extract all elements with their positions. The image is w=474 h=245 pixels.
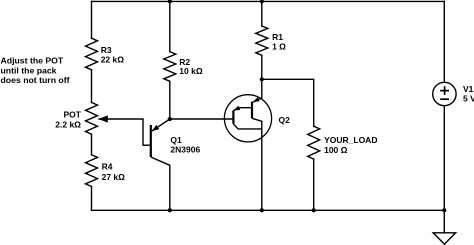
svg-text:2.2 kΩ: 2.2 kΩ	[55, 120, 81, 130]
wire node X to YOUR_LOAD	[262, 79, 314, 126]
node bottom V1	[442, 208, 446, 212]
resistor R1	[256, 26, 268, 55]
svg-text:R3: R3	[101, 45, 112, 55]
wire R3 to POT	[91, 70, 93, 103]
wire POT to R4	[91, 134, 93, 155]
potentiometer POT	[86, 102, 98, 134]
wire V1 top lead	[443, 1, 445, 82]
Q2 arrow T2 emitter	[253, 97, 260, 102]
wire R2 top lead	[169, 1, 171, 51]
resistor YOUR_LOAD	[308, 126, 320, 159]
svg-text:POT: POT	[64, 110, 82, 120]
svg-text:until the pack: until the pack	[1, 65, 57, 75]
transistor Q1 2N3906	[151, 119, 170, 165]
node bottom Q2	[260, 208, 264, 212]
wire left rail lower	[91, 187, 93, 211]
svg-text:1 Ω: 1 Ω	[272, 42, 286, 52]
svg-text:R1: R1	[272, 32, 283, 42]
node bottom load	[312, 208, 316, 212]
wire R1 top lead	[261, 1, 263, 26]
potentiometer wiper arrow	[98, 115, 108, 122]
svg-text:Q2: Q2	[279, 115, 291, 125]
node bottom Q1	[168, 208, 172, 212]
transistor Q2 (PNP darlington)	[224, 95, 271, 142]
node X	[260, 77, 264, 81]
node top R2	[168, 0, 172, 3]
wire node A to Q2 base	[170, 118, 234, 120]
svg-text:22 kΩ: 22 kΩ	[101, 55, 125, 65]
svg-text:R4: R4	[102, 161, 113, 171]
svg-text:YOUR_LOAD: YOUR_LOAD	[324, 135, 377, 145]
voltage source V1	[433, 82, 456, 105]
wire R2 bottom lead to node A	[169, 81, 171, 119]
wire R1 bottom lead to node X	[261, 55, 263, 79]
wire top rail	[92, 0, 445, 2]
wire left rail upper	[91, 1, 93, 38]
node top R1	[260, 0, 264, 3]
svg-text:Adjust the POT: Adjust the POT	[1, 56, 64, 66]
svg-text:5 V: 5 V	[463, 94, 474, 104]
Q2 inner arrow T1 emitter	[234, 106, 241, 111]
node A	[168, 117, 172, 121]
wire node X to Q2 emitter lead	[261, 79, 263, 98]
resistor R2	[164, 52, 176, 82]
svg-text:100 Ω: 100 Ω	[324, 145, 348, 155]
wire Q2 collector lead	[261, 121, 263, 210]
wire V1 bottom lead	[443, 106, 445, 211]
svg-text:V1: V1	[463, 84, 474, 94]
wire ground lead	[443, 210, 445, 233]
svg-text:does not turn off: does not turn off	[1, 75, 70, 85]
svg-text:2N3906: 2N3906	[170, 145, 200, 155]
svg-text:27 kΩ: 27 kΩ	[102, 172, 126, 182]
resistor R3	[86, 38, 98, 70]
resistor R4	[86, 155, 98, 187]
wire YOUR_LOAD bottom lead	[313, 159, 315, 210]
svg-text:10 kΩ: 10 kΩ	[179, 66, 203, 76]
wire bottom rail	[92, 209, 445, 211]
wire POT wiper to Q1 base	[99, 119, 150, 145]
ground	[433, 233, 455, 244]
wire Q1 collector lead	[169, 165, 171, 210]
